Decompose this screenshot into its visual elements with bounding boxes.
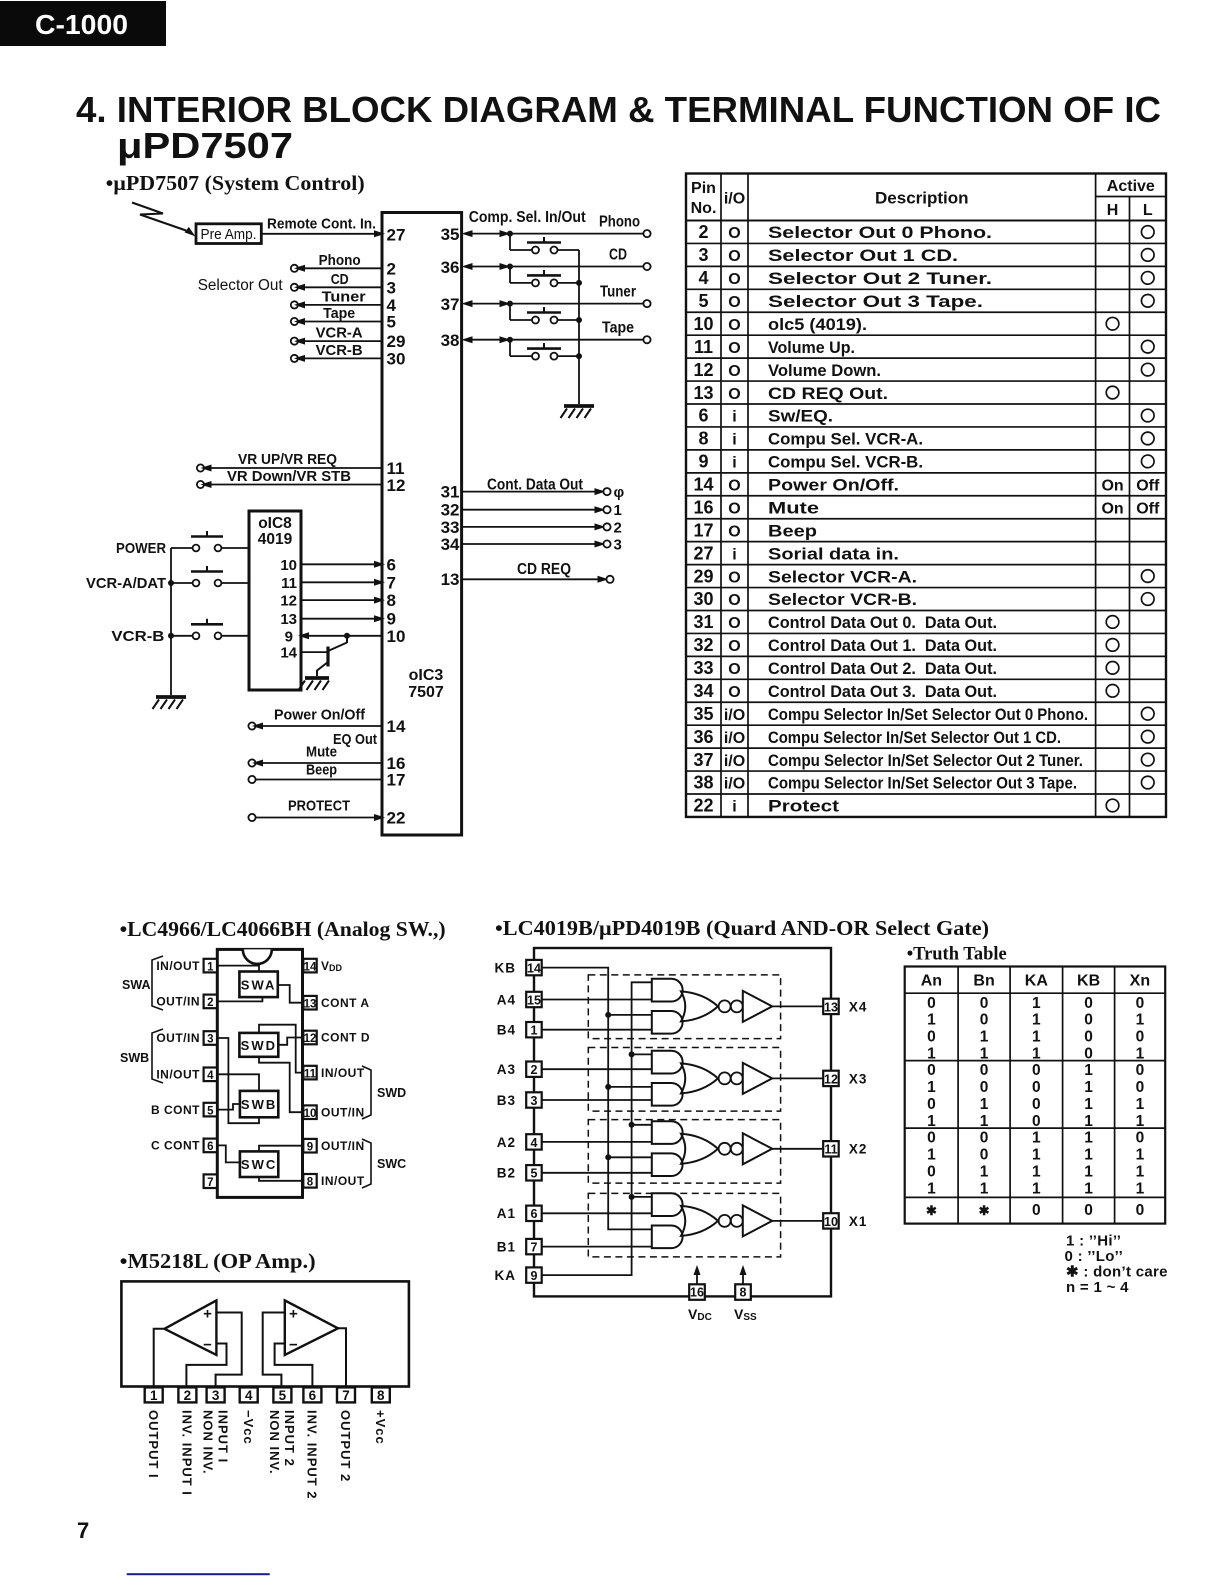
svg-text:0: 0 bbox=[1032, 1096, 1041, 1113]
svg-text:A3: A3 bbox=[497, 1062, 516, 1077]
svg-text:5: 5 bbox=[698, 291, 708, 311]
pin label at x=187.4 M5218L bbox=[180, 1410, 195, 1496]
wire pin 6 C CONT to SWC bbox=[216, 1145, 240, 1162]
svg-text:IN/OUT: IN/OUT bbox=[321, 1066, 365, 1080]
svg-text:•LC4019B/μPD4019B (Quard AND-: •LC4019B/μPD4019B (Quard AND-OR Select G… bbox=[495, 916, 989, 940]
svg-text:+: + bbox=[203, 1306, 212, 1323]
wire Control Data Out φ pin 31 bbox=[441, 483, 625, 502]
wire 4019 pin 13 to 7507 pin 9 bbox=[280, 610, 396, 629]
svg-text:Compu Selector In/Set Selector: Compu Selector In/Set Selector Out 1 CD. bbox=[768, 729, 1061, 747]
svg-text:29: 29 bbox=[387, 332, 406, 351]
svg-text:10: 10 bbox=[693, 314, 713, 334]
pin label at x=248.7 M5218L bbox=[241, 1410, 256, 1445]
switch Tape select (pushbutton) bbox=[510, 340, 582, 360]
svg-text:31: 31 bbox=[693, 612, 713, 632]
wire input A4 bbox=[542, 999, 652, 1001]
svg-text:14: 14 bbox=[304, 961, 317, 973]
svg-text:SWA: SWA bbox=[122, 978, 150, 992]
svg-text:1 : ’’Hi’’: 1 : ’’Hi’’ bbox=[1066, 1233, 1121, 1250]
wire i/O line pin 37 Tuner bbox=[441, 284, 651, 314]
pin 3 B3 LC4019B bbox=[497, 1092, 542, 1108]
wire SWD to pin 12 CONT D bbox=[278, 1038, 303, 1045]
svg-text:KB: KB bbox=[495, 961, 517, 976]
svg-text:7507: 7507 bbox=[408, 684, 444, 701]
svg-text:7: 7 bbox=[531, 1241, 538, 1255]
svg-text:2: 2 bbox=[531, 1063, 538, 1077]
wire Selector Out Tuner pin 4 bbox=[291, 288, 397, 315]
svg-text:1: 1 bbox=[1084, 1079, 1093, 1096]
pin 6 A1 LC4019B bbox=[497, 1206, 542, 1222]
svg-text:0: 0 bbox=[1084, 1029, 1093, 1046]
svg-text:SWA: SWA bbox=[241, 977, 277, 992]
svg-text:1: 1 bbox=[1032, 1147, 1041, 1164]
svg-text:L: L bbox=[1143, 202, 1153, 219]
svg-text:0 : ’’Lo’’: 0 : ’’Lo’’ bbox=[1065, 1248, 1124, 1265]
svg-text:0: 0 bbox=[1032, 1202, 1041, 1219]
pin 12 X3 LC4019B bbox=[823, 1071, 867, 1087]
svg-text:OUT/IN: OUT/IN bbox=[321, 1139, 365, 1153]
wire op-amp 1 output to pin 1 bbox=[154, 1329, 165, 1387]
AND gate B2 bbox=[652, 1153, 683, 1176]
svg-text:NON INV.: NON INV. bbox=[267, 1410, 282, 1475]
wire X4 output bbox=[772, 1005, 823, 1007]
inverter bubbles 4 bbox=[719, 1000, 731, 1012]
svg-text:C CONT: C CONT bbox=[151, 1139, 200, 1153]
wire op-amp 2 output to pin 7 bbox=[338, 1328, 346, 1387]
wire 4019 pin 11 to 7507 pin 7 bbox=[281, 573, 396, 592]
svg-text:0: 0 bbox=[1136, 1079, 1145, 1096]
IC LC4019B outline bbox=[534, 948, 831, 1296]
svg-text:1: 1 bbox=[1032, 1163, 1041, 1180]
lightning callout arrow to Pre Amp bbox=[132, 203, 197, 240]
svg-text:Control Data Out 0. Data Out.: Control Data Out 0. Data Out. bbox=[768, 614, 997, 632]
svg-text:oIC3: oIC3 bbox=[409, 667, 444, 684]
svg-text:O: O bbox=[728, 340, 740, 357]
svg-text:IN/OUT: IN/OUT bbox=[156, 959, 200, 973]
svg-text:14: 14 bbox=[693, 475, 713, 495]
svg-text:0: 0 bbox=[927, 1163, 936, 1180]
svg-text:Sorial data in.: Sorial data in. bbox=[768, 545, 899, 563]
wire VR Down/VR STB pin 12 bbox=[197, 468, 406, 495]
svg-text:O: O bbox=[728, 363, 740, 380]
pin 13 X4 LC4019B bbox=[823, 999, 867, 1015]
svg-text:VCR-A: VCR-A bbox=[316, 325, 363, 342]
svg-text:VCR-B: VCR-B bbox=[111, 628, 164, 645]
gate group 4 dashed outline bbox=[588, 975, 780, 1039]
svg-text:6: 6 bbox=[698, 406, 708, 426]
wire input A2 bbox=[542, 1141, 652, 1143]
pin 16 VDC LC4019B bbox=[688, 1265, 712, 1323]
svg-text:0: 0 bbox=[1136, 1202, 1145, 1219]
model badge C-1000 bbox=[0, 1, 166, 46]
pin label at x=215.6 M5218L bbox=[200, 1410, 230, 1475]
pin 7 M5218L bbox=[337, 1387, 355, 1402]
wire op-amp 2 inv input to pin 6 bbox=[275, 1344, 313, 1388]
svg-text:B3: B3 bbox=[497, 1093, 516, 1108]
svg-text:0: 0 bbox=[927, 1130, 936, 1147]
svg-text:X4: X4 bbox=[849, 999, 868, 1014]
svg-text:1: 1 bbox=[1032, 995, 1041, 1012]
gate group 2 dashed outline bbox=[588, 1120, 780, 1184]
net KB distribution bbox=[542, 968, 652, 1230]
svg-text:A4: A4 bbox=[497, 992, 516, 1007]
svg-text:0: 0 bbox=[1136, 1130, 1145, 1147]
svg-text:5: 5 bbox=[279, 1388, 287, 1403]
svg-text:Active: Active bbox=[1107, 178, 1155, 195]
pin 7 LC4966 bbox=[204, 1174, 217, 1189]
svg-text:11: 11 bbox=[304, 1068, 317, 1080]
svg-text:0: 0 bbox=[980, 1130, 989, 1147]
svg-text:1: 1 bbox=[531, 1024, 538, 1038]
wire pin 2 to SWA bbox=[216, 997, 262, 1001]
svg-text:i: i bbox=[732, 799, 736, 816]
svg-text:−: − bbox=[289, 1337, 298, 1354]
svg-text:+: + bbox=[289, 1306, 298, 1323]
svg-text:1: 1 bbox=[1084, 1113, 1093, 1130]
svg-text:i/O: i/O bbox=[724, 707, 745, 724]
pin 4 A2 LC4019B bbox=[497, 1134, 542, 1150]
wire X1 output bbox=[772, 1220, 823, 1222]
svg-text:O: O bbox=[728, 500, 740, 517]
svg-text:1: 1 bbox=[980, 1045, 989, 1062]
svg-text:On: On bbox=[1101, 478, 1123, 495]
svg-text:8: 8 bbox=[698, 429, 708, 449]
svg-text:13: 13 bbox=[304, 998, 317, 1010]
wire op-amp 1 inv input to pin 2 bbox=[186, 1344, 226, 1388]
wire SWC to pin 9 bbox=[259, 1146, 303, 1152]
svg-text:2: 2 bbox=[184, 1388, 192, 1403]
svg-text:✱: ✱ bbox=[926, 1203, 937, 1218]
AND gate B4 bbox=[652, 1011, 683, 1034]
svg-text:CONT D: CONT D bbox=[321, 1031, 370, 1045]
wire i/O line pin 36 CD bbox=[441, 247, 651, 277]
svg-text:0: 0 bbox=[1136, 995, 1145, 1012]
op-amp U1a bbox=[165, 1300, 217, 1355]
svg-text:1: 1 bbox=[1136, 1147, 1145, 1164]
svg-text:Tape: Tape bbox=[602, 320, 634, 337]
svg-text:i/O: i/O bbox=[724, 730, 745, 747]
svg-text:Off: Off bbox=[1136, 500, 1160, 517]
op-amp U1b bbox=[285, 1300, 338, 1355]
svg-text:X3: X3 bbox=[849, 1071, 868, 1086]
svg-text:SWC: SWC bbox=[241, 1157, 277, 1172]
wire op-amp 1 non-inv input to pin 3 bbox=[216, 1313, 242, 1388]
svg-text:1: 1 bbox=[927, 1180, 936, 1197]
svg-text:13: 13 bbox=[441, 570, 460, 589]
svg-text:Compu Sel. VCR-B.: Compu Sel. VCR-B. bbox=[768, 454, 923, 472]
svg-text:1: 1 bbox=[1136, 1163, 1145, 1180]
svg-text:VCR-B: VCR-B bbox=[316, 342, 363, 359]
svg-text:0: 0 bbox=[980, 1012, 989, 1029]
svg-text:NON INV.: NON INV. bbox=[200, 1410, 215, 1475]
svg-text:INPUT I: INPUT I bbox=[215, 1410, 230, 1463]
svg-text:•M5218L (OP Amp.): •M5218L (OP Amp.) bbox=[120, 1249, 316, 1273]
svg-text:4. INTERIOR BLOCK DIAGRAM & TE: 4. INTERIOR BLOCK DIAGRAM & TERMINAL FUN… bbox=[76, 89, 1161, 130]
svg-text:0: 0 bbox=[1136, 1062, 1145, 1079]
svg-text:OUT/IN: OUT/IN bbox=[321, 1105, 365, 1119]
svg-text:INV. INPUT I: INV. INPUT I bbox=[180, 1410, 195, 1496]
svg-text:1: 1 bbox=[614, 502, 622, 519]
AND gate B1 bbox=[652, 1226, 683, 1249]
svg-text:Protect: Protect bbox=[768, 798, 840, 816]
svg-text:SWD: SWD bbox=[241, 1038, 277, 1053]
svg-text:An: An bbox=[921, 973, 942, 990]
svg-text:n = 1 ~ 4: n = 1 ~ 4 bbox=[1066, 1279, 1129, 1296]
svg-text:KA: KA bbox=[1025, 973, 1049, 990]
svg-text:3: 3 bbox=[614, 537, 622, 554]
wire Power On/Off EQ Out pin 14 bbox=[248, 707, 406, 749]
pin 5 B2 LC4019B bbox=[497, 1165, 542, 1181]
svg-text:1: 1 bbox=[1032, 1130, 1041, 1147]
pin 4 LC4966 bbox=[156, 1068, 217, 1083]
svg-text:O: O bbox=[728, 386, 740, 403]
switch Tuner select (pushbutton) bbox=[510, 304, 582, 324]
svg-text:7: 7 bbox=[77, 1518, 89, 1543]
svg-text:i/O: i/O bbox=[724, 191, 745, 208]
svg-text:O: O bbox=[728, 615, 740, 632]
pin 5 M5218L bbox=[273, 1387, 291, 1402]
svg-text:6: 6 bbox=[387, 555, 396, 574]
svg-text:0: 0 bbox=[1032, 1113, 1041, 1130]
svg-text:1: 1 bbox=[980, 1163, 989, 1180]
wire X3 output bbox=[772, 1077, 823, 1079]
svg-text:27: 27 bbox=[387, 225, 406, 244]
buffer 3 bbox=[743, 1063, 772, 1094]
pin 6 M5218L bbox=[303, 1387, 321, 1402]
AND gate B3 bbox=[652, 1083, 683, 1106]
svg-text:13: 13 bbox=[280, 611, 297, 628]
svg-text:38: 38 bbox=[441, 331, 460, 350]
svg-text:Power On/Off.: Power On/Off. bbox=[768, 477, 899, 495]
svg-text:0: 0 bbox=[980, 1147, 989, 1164]
svg-text:Selector Out 0 Phono.: Selector Out 0 Phono. bbox=[768, 224, 992, 242]
wire pin 4 to SWB bbox=[216, 1074, 259, 1091]
svg-text:8: 8 bbox=[307, 1177, 314, 1189]
svg-text:Tape: Tape bbox=[323, 305, 355, 322]
svg-text:1: 1 bbox=[927, 1079, 936, 1096]
svg-text:VDD: VDD bbox=[321, 959, 343, 973]
pin 11 LC4966 bbox=[303, 1066, 365, 1081]
svg-text:1: 1 bbox=[1032, 1180, 1041, 1197]
wire pin 3 to SWB bbox=[216, 1038, 259, 1123]
svg-text:11: 11 bbox=[281, 575, 297, 592]
svg-text:μPD7507: μPD7507 bbox=[117, 125, 293, 166]
svg-text:Control Data Out 3. Data Out.: Control Data Out 3. Data Out. bbox=[768, 683, 997, 701]
svg-text:4: 4 bbox=[698, 268, 708, 288]
svg-text:0: 0 bbox=[980, 1062, 989, 1079]
svg-text:1: 1 bbox=[980, 1113, 989, 1130]
svg-text:2: 2 bbox=[207, 997, 213, 1009]
svg-text:1: 1 bbox=[927, 1113, 936, 1130]
wire CD REQ pin 13 bbox=[441, 561, 614, 589]
svg-text:i/O: i/O bbox=[724, 753, 745, 770]
svg-text:4019: 4019 bbox=[258, 531, 293, 548]
footer blue rule bbox=[127, 1573, 270, 1575]
pin 2 M5218L bbox=[178, 1387, 196, 1402]
svg-text:37: 37 bbox=[441, 295, 460, 314]
svg-text:36: 36 bbox=[441, 258, 460, 277]
svg-text:22: 22 bbox=[387, 809, 406, 828]
svg-text:17: 17 bbox=[387, 771, 406, 790]
OR gate 1 bbox=[681, 1206, 718, 1236]
OR gate 2 bbox=[681, 1134, 718, 1164]
pin 15 A4 LC4019B bbox=[497, 992, 542, 1008]
svg-text:B CONT: B CONT bbox=[151, 1103, 200, 1117]
svg-text:VR Down/VR STB: VR Down/VR STB bbox=[227, 468, 351, 485]
svg-text:OUTPUT 2: OUTPUT 2 bbox=[338, 1410, 353, 1482]
svg-text:A2: A2 bbox=[497, 1135, 516, 1150]
analog switch SWA bbox=[239, 972, 277, 998]
wire op-amp 2 non-inv input to pin 5 bbox=[263, 1313, 285, 1388]
svg-text:33: 33 bbox=[693, 658, 713, 678]
svg-text:•Truth Table: •Truth Table bbox=[907, 944, 1007, 965]
inverter bubbles 3 bbox=[719, 1072, 731, 1084]
svg-text:Mute: Mute bbox=[306, 744, 337, 761]
svg-text:8: 8 bbox=[387, 591, 396, 610]
svg-text:O: O bbox=[728, 225, 740, 242]
svg-text:29: 29 bbox=[693, 566, 713, 586]
svg-text:4: 4 bbox=[245, 1388, 253, 1403]
pin 2 LC4966 bbox=[156, 995, 217, 1010]
pin 14 KB LC4019B bbox=[495, 960, 542, 976]
svg-text:14: 14 bbox=[280, 645, 297, 662]
wire SWC to pin 8 bbox=[259, 1177, 303, 1181]
svg-text:O: O bbox=[728, 478, 740, 495]
svg-text:0: 0 bbox=[1032, 1079, 1041, 1096]
svg-text:0: 0 bbox=[1084, 1045, 1093, 1062]
IC LC4966 package body bbox=[217, 949, 302, 1197]
svg-text:i: i bbox=[732, 432, 736, 449]
svg-text:IN/OUT: IN/OUT bbox=[156, 1068, 200, 1082]
svg-text:Comp. Sel. In/Out: Comp. Sel. In/Out bbox=[469, 209, 586, 226]
pin 2 A3 LC4019B bbox=[497, 1062, 542, 1078]
svg-text:Compu Selector In/Set Selector: Compu Selector In/Set Selector Out 0 Pho… bbox=[768, 706, 1088, 724]
svg-text:B4: B4 bbox=[497, 1023, 516, 1038]
svg-text:Mute: Mute bbox=[768, 499, 819, 517]
switch VCR-B (pushbutton) bbox=[111, 619, 249, 645]
svg-text:H: H bbox=[1107, 202, 1119, 219]
svg-text:X2: X2 bbox=[849, 1142, 868, 1157]
svg-text:Selector Out: Selector Out bbox=[198, 277, 284, 294]
IC M5218L outline bbox=[121, 1281, 409, 1386]
wire switch ground bus bbox=[578, 250, 580, 404]
svg-text:12: 12 bbox=[304, 1033, 317, 1045]
svg-text:X1: X1 bbox=[849, 1214, 868, 1229]
svg-text:Selector Out 3 Tape.: Selector Out 3 Tape. bbox=[768, 293, 983, 311]
svg-text:12: 12 bbox=[387, 476, 406, 495]
wire 4019 pin 10 to 7507 pin 6 bbox=[280, 555, 396, 574]
svg-text:Selector VCR-B.: Selector VCR-B. bbox=[768, 591, 917, 609]
svg-text:16: 16 bbox=[690, 1286, 704, 1300]
svg-text:11: 11 bbox=[694, 337, 713, 357]
OR gate 3 bbox=[681, 1063, 718, 1093]
svg-text:10: 10 bbox=[387, 627, 406, 646]
svg-text:1: 1 bbox=[1084, 1147, 1093, 1164]
svg-text:Xn: Xn bbox=[1130, 973, 1150, 990]
svg-text:Pre Amp.: Pre Amp. bbox=[201, 227, 257, 243]
pin function table for uPD7507 bbox=[686, 174, 1166, 817]
ground (comp sel switches) bbox=[561, 406, 595, 418]
svg-text:3: 3 bbox=[212, 1388, 220, 1403]
svg-text:O: O bbox=[728, 684, 740, 701]
svg-text:A1: A1 bbox=[497, 1206, 516, 1221]
svg-text:POWER: POWER bbox=[116, 540, 166, 557]
svg-text:i: i bbox=[732, 409, 736, 426]
svg-text:34: 34 bbox=[693, 681, 713, 701]
pin label at x=282.4 M5218L bbox=[267, 1410, 297, 1475]
group brace SWA bbox=[122, 956, 163, 1010]
svg-text:1: 1 bbox=[1136, 1045, 1145, 1062]
switch POWER (pushbutton) bbox=[116, 531, 249, 557]
svg-text:3: 3 bbox=[698, 245, 708, 265]
svg-text:4: 4 bbox=[531, 1136, 538, 1150]
svg-text:1: 1 bbox=[1136, 1180, 1145, 1197]
svg-text:CONT A: CONT A bbox=[321, 996, 370, 1010]
svg-text:Selector VCR-A.: Selector VCR-A. bbox=[768, 568, 917, 586]
svg-text:Description: Description bbox=[875, 189, 969, 208]
wire SWA to pin 13 CONT A bbox=[278, 985, 304, 1003]
wire input A3 bbox=[542, 1068, 652, 1070]
IC U3 oIC3 7507 (uPD7507 system control) bbox=[382, 213, 462, 836]
ground (transistor emitter) bbox=[299, 678, 330, 690]
svg-text:7: 7 bbox=[387, 573, 396, 592]
wire i/O line pin 35 Phono bbox=[441, 214, 651, 244]
svg-text:olc5 (4019).: olc5 (4019). bbox=[768, 316, 867, 334]
pin 9 LC4966 bbox=[303, 1139, 364, 1154]
svg-text:OUT/IN: OUT/IN bbox=[156, 995, 200, 1009]
svg-text:1: 1 bbox=[980, 1029, 989, 1046]
svg-text:SWC: SWC bbox=[377, 1157, 406, 1171]
svg-text:•μPD7507 (System Control): •μPD7507 (System Control) bbox=[106, 171, 365, 195]
svg-text:O: O bbox=[728, 248, 740, 265]
svg-text:3: 3 bbox=[387, 278, 396, 297]
wire i/O line pin 38 Tape bbox=[441, 320, 651, 350]
wire Control Data Out 2 pin 33 bbox=[441, 518, 622, 537]
svg-text:1: 1 bbox=[1084, 1163, 1093, 1180]
wire pin 5 B CONT to SWB bbox=[216, 1104, 240, 1110]
wire Beep pin 17 bbox=[248, 762, 405, 790]
svg-text:O: O bbox=[728, 271, 740, 288]
wire input B4 bbox=[542, 1029, 652, 1031]
wire switch common bus bbox=[170, 548, 172, 695]
svg-text:✱: ✱ bbox=[979, 1203, 990, 1218]
svg-text:3: 3 bbox=[531, 1094, 538, 1108]
svg-text:0: 0 bbox=[1084, 1012, 1093, 1029]
svg-text:7: 7 bbox=[342, 1388, 350, 1403]
analog switch SWC bbox=[240, 1151, 278, 1177]
svg-text:1: 1 bbox=[1136, 1096, 1145, 1113]
switch VCR-A/DAT (pushbutton) bbox=[86, 566, 249, 592]
svg-text:9: 9 bbox=[285, 628, 293, 645]
wire X2 output bbox=[772, 1148, 823, 1150]
svg-text:Power On/Off: Power On/Off bbox=[274, 707, 366, 724]
pin label at x=346 M5218L bbox=[338, 1410, 353, 1482]
pin 8 LC4966 bbox=[303, 1174, 365, 1189]
wire SWD to pin 11 bbox=[259, 1025, 303, 1073]
svg-text:8: 8 bbox=[740, 1286, 747, 1300]
svg-text:12: 12 bbox=[280, 593, 297, 610]
svg-text:0: 0 bbox=[980, 1079, 989, 1096]
buffer 1 bbox=[743, 1205, 772, 1236]
svg-text:1: 1 bbox=[1136, 1012, 1145, 1029]
svg-text:Sw/EQ.: Sw/EQ. bbox=[768, 408, 833, 426]
svg-text:O: O bbox=[728, 638, 740, 655]
wire 4019 pin 12 to 7507 pin 8 bbox=[280, 591, 396, 610]
svg-text:1: 1 bbox=[207, 961, 214, 973]
svg-text:36: 36 bbox=[693, 727, 713, 747]
svg-text:VCR-A/DAT: VCR-A/DAT bbox=[86, 575, 166, 592]
svg-text:11: 11 bbox=[824, 1143, 837, 1157]
